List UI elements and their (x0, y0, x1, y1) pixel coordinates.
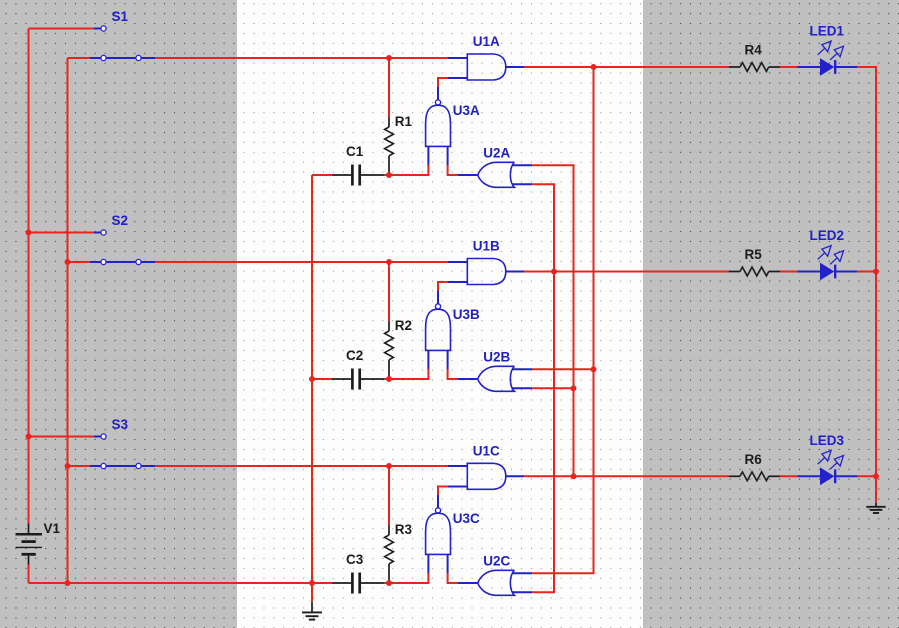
switch S1 (90, 26, 155, 61)
resistor R1 (385, 118, 394, 173)
or gate U2B (478, 366, 532, 391)
node: junction U2B input 1 (591, 366, 597, 372)
wire: bottom rail from battery to C3 (29, 582, 332, 584)
wire: resistor R1 bottom stub (388, 172, 390, 175)
wire: U3C output up and right into U1C input B (437, 487, 439, 496)
svg-text:U1B: U1B (473, 239, 500, 254)
resistor R6 (729, 472, 780, 481)
wire: C1 node left corner wire (312, 174, 332, 176)
wire: battery minus down to ground rail (28, 565, 30, 584)
led LED2 (818, 246, 857, 281)
resistor R2 (385, 322, 394, 377)
wire: vertical net U1A-out to U2B-in1 to U2C-in1 (x=593.5) (593, 67, 595, 573)
node: junction R3 top on switch row (386, 463, 392, 469)
node: junction U1B output / vertical net (551, 269, 557, 275)
node: junction rail2 / S3 pole row (65, 463, 71, 469)
svg-text:C1: C1 (346, 144, 364, 159)
node: junction right rail / LED3 row (873, 473, 879, 479)
wire: vertical net U2A-in2 / U1B-out / U2C-in2 (x=554) (553, 184, 555, 592)
svg-text:R1: R1 (395, 114, 413, 129)
wire: C1 to node (385, 174, 389, 176)
wire: U2C input 1 to vertical net of U1A output (532, 572, 595, 574)
svg-text:U1C: U1C (473, 443, 500, 458)
wire: vertical net U2A-in1 / U2B-in2 / U1C-out (x=573.5) (573, 165, 575, 476)
switch S2 (90, 230, 155, 265)
node: junction rail2 / bottom ground rail (65, 580, 71, 586)
wire: U3C leg stubs to row (427, 573, 429, 584)
capacitor C1 (332, 165, 385, 186)
wire: R6 to LED3 (780, 475, 797, 477)
wire: node to U3C input leg A (389, 582, 428, 584)
svg-text:S3: S3 (112, 417, 129, 432)
svg-text:R6: R6 (745, 452, 763, 467)
wire: resistor R2 bottom stub (388, 376, 390, 379)
node: junction R1 top on switch row (386, 55, 392, 61)
svg-text:LED2: LED2 (810, 228, 845, 243)
wire: U3A leg stubs to row (427, 165, 429, 176)
and gate U1C (467, 463, 524, 489)
svg-text:LED1: LED1 (810, 24, 845, 39)
wire: node to U3B input leg A (389, 378, 428, 380)
wire: U2A input 2 to vertical net of U1B output (532, 183, 555, 185)
battery V1 (16, 524, 43, 565)
wire: C2 wire from middle rail (312, 378, 332, 380)
svg-text:R2: R2 (395, 318, 412, 333)
nand gate U3A (426, 87, 451, 166)
capacitor C3 (332, 573, 385, 594)
svg-text:U3A: U3A (453, 103, 480, 118)
svg-text:U1A: U1A (473, 34, 500, 49)
capacitor C2 (332, 369, 385, 390)
wire: S1 throw terminal row (29, 28, 95, 30)
wire: R4 to LED1 (780, 66, 797, 68)
svg-text:V1: V1 (44, 521, 61, 536)
nand gate U3B (426, 291, 451, 370)
svg-text:U2C: U2C (483, 554, 510, 569)
resistor R4 (729, 63, 780, 72)
wire: node to U3A input leg A (389, 174, 428, 176)
node: junction R2 top on switch row (386, 259, 392, 265)
node: junction right rail / LED2 row (873, 269, 879, 275)
wire: U2B input 2 to vertical net of U1C output (532, 387, 574, 389)
node: junction on left rail at S3 throw wire (26, 434, 32, 440)
led LED1 (818, 41, 857, 76)
ground (bottom middle) (302, 583, 322, 620)
wire: U3B input leg B from U2B output (448, 378, 458, 380)
resistor R5 (729, 267, 780, 276)
ground (right, below LED3 junction) (866, 503, 885, 513)
wire: S2 throw terminal row (29, 232, 95, 234)
wire: middle vertical rail from C1 node down to ground (311, 175, 313, 583)
or gate U2A (478, 162, 532, 187)
wire: second rail joining switch poles, S1 row corner down to bottom rail (67, 58, 69, 583)
node: junction C3 / R3 (386, 580, 392, 586)
node: junction middle rail / C2 wire (309, 376, 315, 382)
svg-text:S1: S1 (112, 9, 129, 24)
node: junction U1A output / vertical net (591, 64, 597, 70)
wire: U3A output up and right into U1A input B (437, 78, 439, 87)
wire: U1B output row to resistor R5 (524, 271, 729, 273)
node: junction on left rail at S2 throw wire (26, 230, 32, 236)
led LED3 (818, 450, 857, 485)
wire: S3 pole row to U1C input A (68, 465, 91, 467)
nand gate U3C (426, 495, 451, 574)
node: junction C2 / R2 (386, 376, 392, 382)
wire: C2 to node (385, 378, 389, 380)
wire: switch row down to resistor R1 (388, 58, 390, 118)
wire: U2A input 1 to vertical net of U1C output (532, 164, 575, 166)
wire: R5 to LED2 (780, 271, 797, 273)
wire: LED3 cathode to right rail (857, 475, 877, 477)
svg-text:C3: C3 (346, 552, 364, 567)
wire: U3A input leg B from U2A output (448, 174, 458, 176)
wire: U3B leg stubs to row (427, 369, 429, 380)
wire: LED1 cathode to right rail (857, 66, 877, 68)
wire: right rail from LED1 down to ground (875, 67, 877, 503)
wire: left rail from battery plus up to S1 throw terminal (28, 29, 30, 524)
wire: U2C input 2 to vertical net of U1B output (532, 591, 555, 593)
svg-text:U2A: U2A (483, 146, 510, 161)
node: junction rail2 / S2 pole row (65, 259, 71, 265)
svg-text:U3B: U3B (453, 307, 480, 322)
wire: U3B output up and right into U1B input B (437, 282, 439, 291)
node: junction U1C output / vertical net (571, 473, 577, 479)
svg-text:U2B: U2B (483, 350, 510, 365)
wire: U3C input leg B from U2C output (448, 582, 458, 584)
wire: switch row down to resistor R3 (388, 466, 390, 526)
svg-text:R3: R3 (395, 522, 413, 537)
wire: resistor R3 bottom stub (388, 580, 390, 583)
node: junction U2B input 2 (571, 385, 577, 391)
wire: S2 pole row to U1B input A (68, 261, 91, 263)
and gate U1A (467, 54, 524, 80)
svg-text:U3C: U3C (453, 511, 480, 526)
svg-text:R4: R4 (745, 43, 763, 58)
and gate U1B (467, 259, 524, 285)
resistor R3 (385, 526, 394, 581)
svg-text:R5: R5 (745, 247, 763, 262)
node: junction middle rail / bottom rail (309, 580, 315, 586)
wire: U1C output row to resistor R6 (524, 475, 729, 477)
wire: C3 to node (385, 582, 389, 584)
wire: U1A output row to resistor R4 (524, 66, 729, 68)
or gate U2C (478, 570, 532, 595)
svg-text:C2: C2 (346, 348, 363, 363)
node: junction C1 / R1 (386, 172, 392, 178)
wire: S1 pole row to U1A input A (68, 57, 91, 59)
switch S3 (90, 434, 155, 469)
svg-text:S2: S2 (112, 213, 129, 228)
wire: U2B input 1 to vertical net of U1A output (532, 368, 594, 370)
svg-text:LED3: LED3 (810, 433, 845, 448)
wire: switch row down to resistor R2 (388, 262, 390, 322)
wire: LED2 cathode to right rail (857, 271, 877, 273)
wire: S3 throw terminal row (29, 436, 95, 438)
